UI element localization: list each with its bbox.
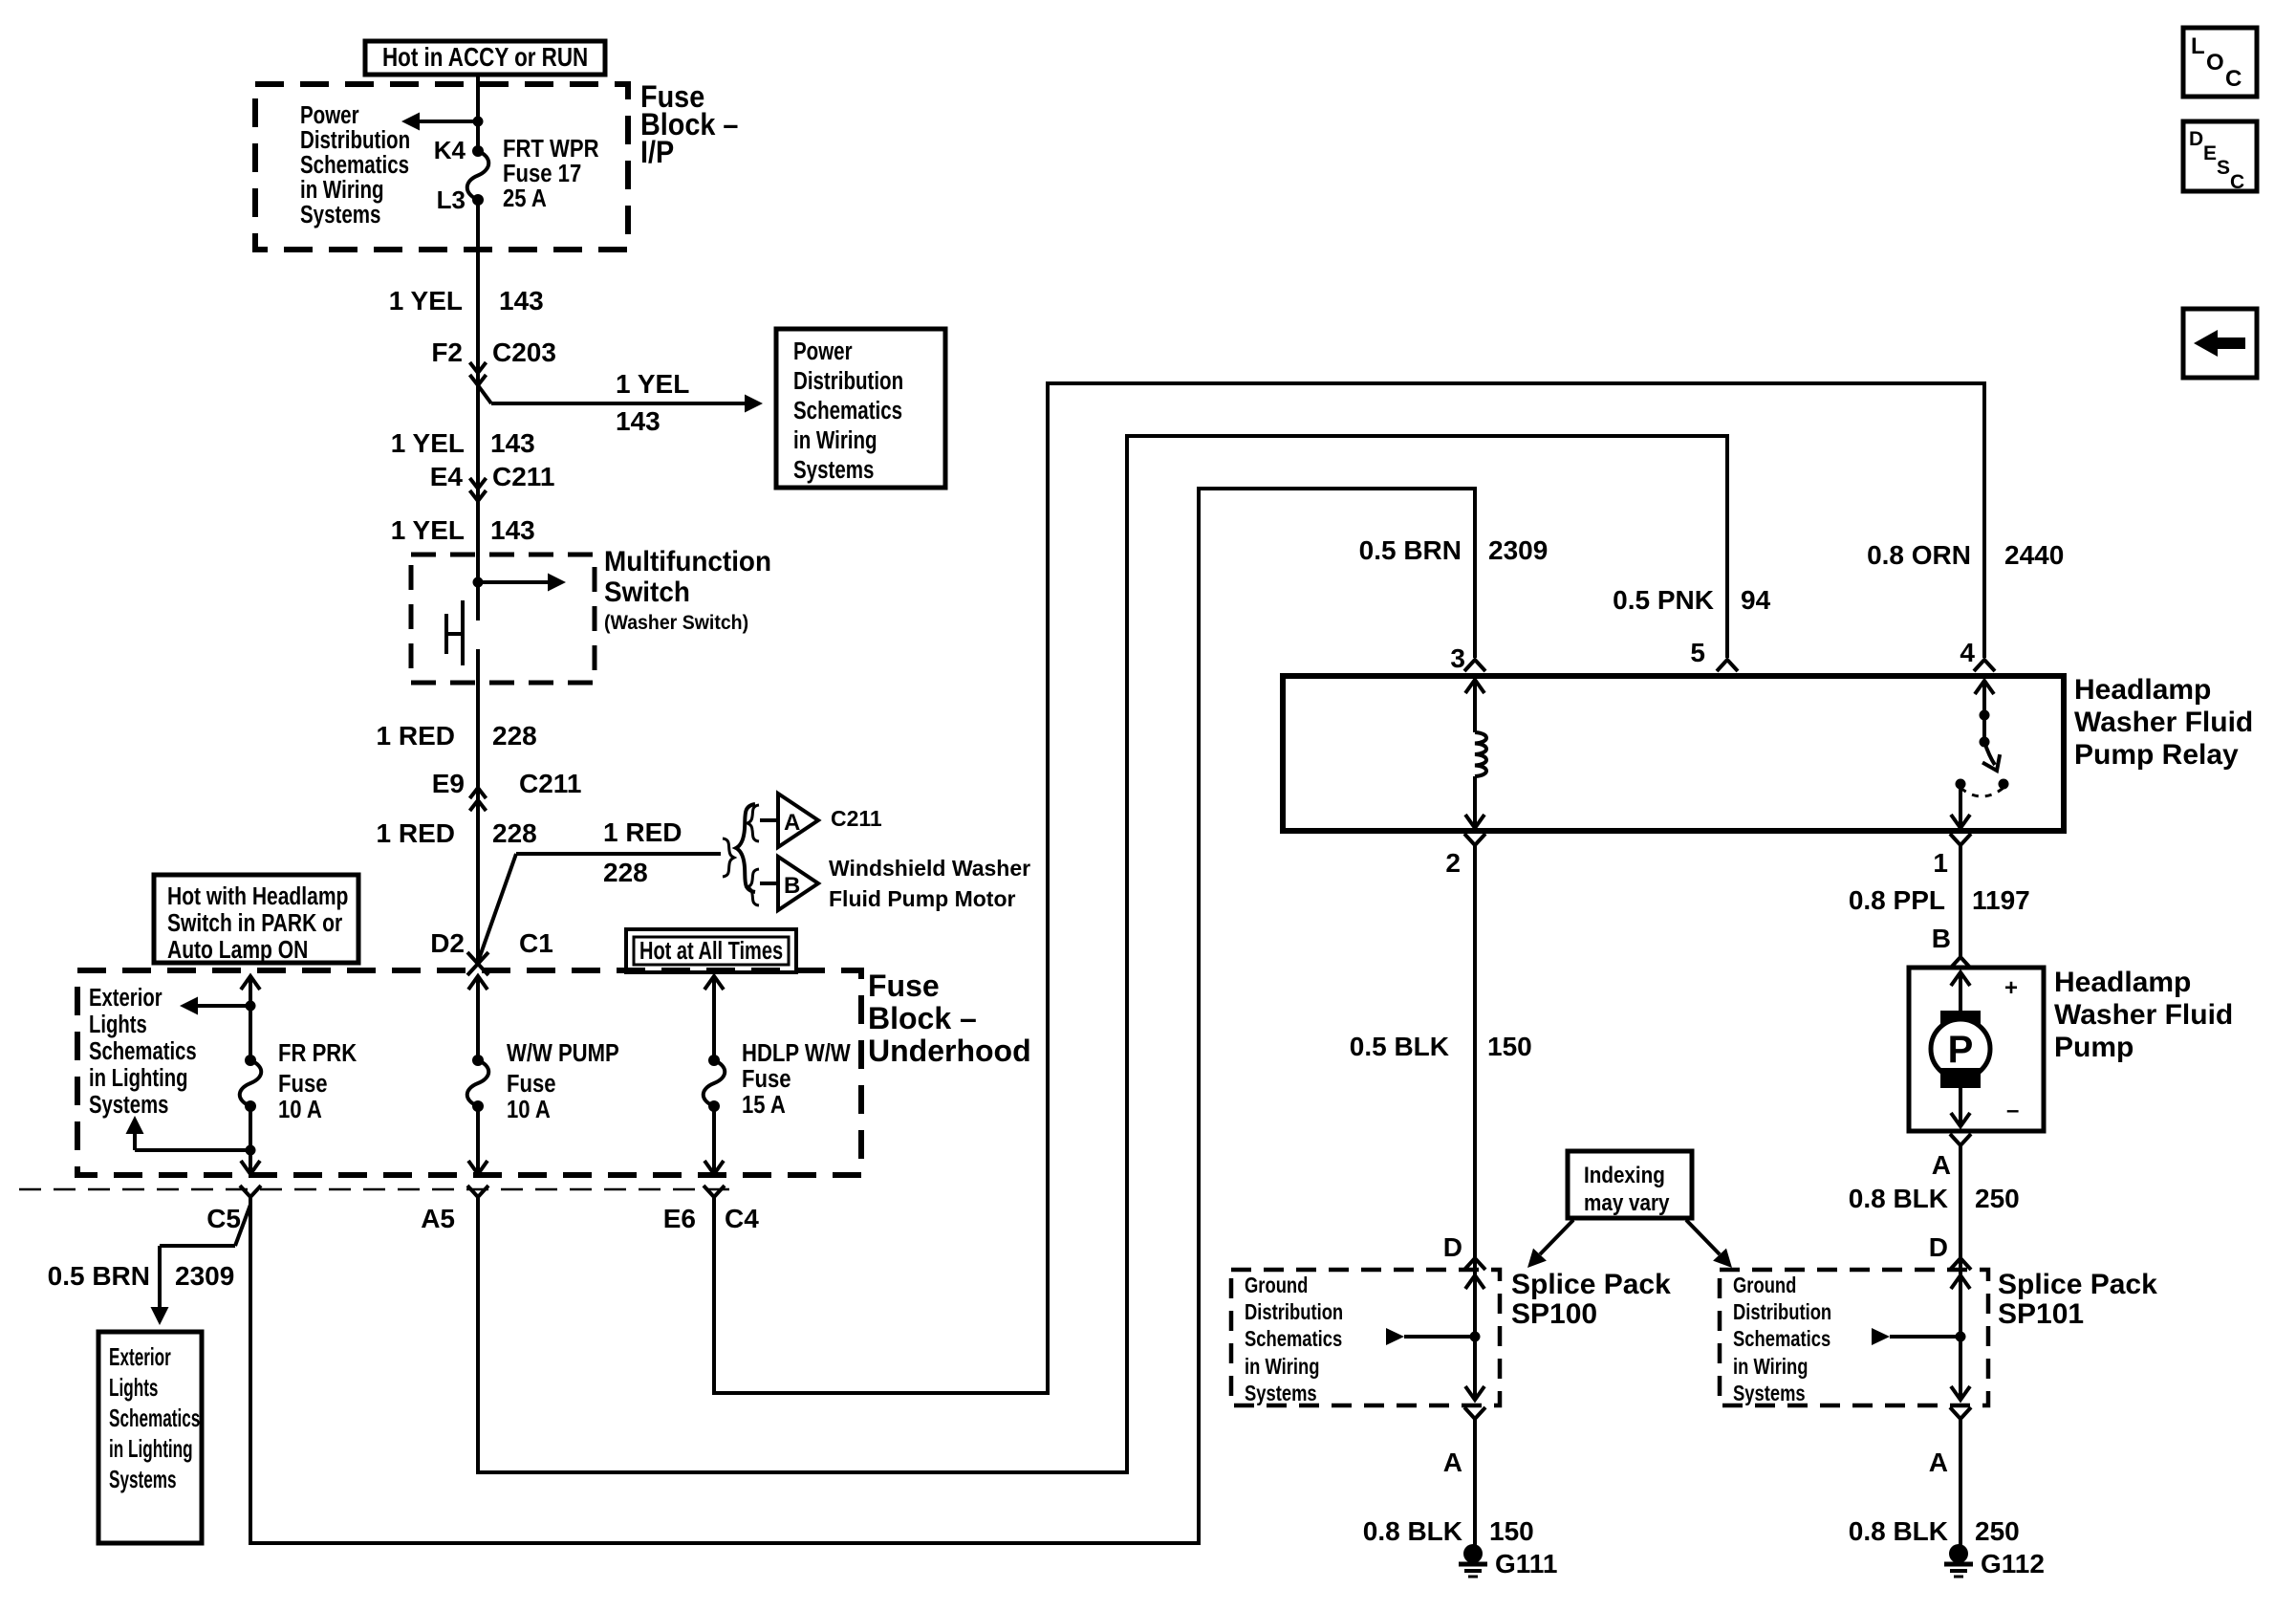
fuse F17 FRT WPR 25A xyxy=(467,145,489,206)
node: Headlamp Washer Fluid Pump label xyxy=(2054,967,2233,1063)
pin 4 xyxy=(1960,638,1995,671)
svg-text:S: S xyxy=(2217,157,2230,179)
svg-text:Systems: Systems xyxy=(793,456,874,484)
motor M pump symbol xyxy=(1931,972,1990,1126)
svg-text:0.5 BRN: 0.5 BRN xyxy=(48,1261,150,1291)
svg-text:Exterior: Exterior xyxy=(89,984,162,1012)
wire label: 0.8 PPL 1197 xyxy=(1849,885,2030,915)
pin A (pump) xyxy=(1932,1134,1971,1180)
svg-text:Fuse 17: Fuse 17 xyxy=(503,160,581,187)
svg-text:HDLP W/W: HDLP W/W xyxy=(742,1039,851,1067)
svg-text:Distribution: Distribution xyxy=(300,126,410,154)
svg-text:5: 5 xyxy=(1690,638,1705,667)
wire: W/W PUMP feed xyxy=(468,976,487,1060)
value label: W/W PUMP Fuse 10 A xyxy=(507,1039,619,1123)
fuse block I/P dashed box xyxy=(255,84,628,250)
wire label: 0.8 BLK 150 xyxy=(1363,1516,1534,1546)
svg-text:E6: E6 xyxy=(663,1204,696,1233)
wire: switch feed arrow xyxy=(473,574,567,592)
value label: HDLP W/W Fuse 15 A xyxy=(742,1039,851,1119)
svg-text:Multifunction: Multifunction xyxy=(604,546,771,577)
wire: branch to power distribution (left arrow) xyxy=(401,113,484,131)
svg-text:SP101: SP101 xyxy=(1998,1298,2084,1330)
svg-text:FR PRK: FR PRK xyxy=(278,1039,357,1067)
node: Ground Distribution Schematics reference (SP101) xyxy=(1733,1274,1831,1405)
fuse FR PRK 10A xyxy=(240,1055,262,1112)
svg-text:W/W PUMP: W/W PUMP xyxy=(507,1039,619,1067)
svg-text:C1: C1 xyxy=(519,928,553,958)
terminal A triangle xyxy=(778,794,818,847)
pin 2 xyxy=(1445,834,1485,878)
node: Exterior Lights Schematics reference (in underhood box) xyxy=(89,984,197,1119)
connector A (below SP100) xyxy=(1443,1407,1485,1477)
svg-text:2440: 2440 xyxy=(2004,540,2064,570)
svg-text:2309: 2309 xyxy=(175,1261,234,1291)
node: Splice Pack SP100 label xyxy=(1511,1269,1671,1330)
svg-text:E4: E4 xyxy=(430,462,464,491)
wire: switch output down to E9 xyxy=(476,683,480,815)
svg-text:Splice Pack: Splice Pack xyxy=(1998,1269,2157,1300)
svg-text:C: C xyxy=(2225,66,2242,92)
connector C211 (E4) xyxy=(470,462,555,501)
wire: stub to terminal A xyxy=(760,818,778,822)
svg-text:0.5 BRN: 0.5 BRN xyxy=(1359,535,1462,565)
svg-text:1 YEL: 1 YEL xyxy=(391,428,465,458)
svg-text:FRT WPR: FRT WPR xyxy=(503,135,599,163)
svg-text:Fuse: Fuse xyxy=(868,969,940,1003)
svg-text:2309: 2309 xyxy=(1488,535,1548,565)
svg-text:25 A: 25 A xyxy=(503,185,547,212)
splice pack SP100 dashed box xyxy=(1231,1270,1500,1405)
svg-text:C: C xyxy=(2230,171,2244,193)
svg-text:D: D xyxy=(1443,1232,1462,1262)
svg-text:10 A: 10 A xyxy=(278,1096,322,1123)
connector D (SP100) xyxy=(1443,1232,1485,1270)
brace: splice brace small right xyxy=(723,838,734,877)
svg-text:G112: G112 xyxy=(1981,1549,2045,1578)
node: Hot at All Times box xyxy=(626,929,796,972)
svg-text:Distribution: Distribution xyxy=(1245,1300,1343,1324)
pin B (pump) xyxy=(1932,924,1971,969)
svg-text:Schematics: Schematics xyxy=(300,151,409,179)
fuse HDLP W/W 15A xyxy=(704,1055,726,1112)
wire: FR PRK feed with junction and left arrow xyxy=(180,976,260,1060)
svg-text:Hot with Headlamp: Hot with Headlamp xyxy=(167,883,348,911)
fuse block Underhood dashed box xyxy=(77,970,861,1175)
connector C1 (D2) xyxy=(467,928,553,975)
wire: HDLP W/W feed xyxy=(704,976,724,1060)
svg-text:Washer Fluid: Washer Fluid xyxy=(2074,707,2253,738)
wire label: 0.5 BRN 2309 (bottom left) xyxy=(48,1261,235,1291)
wire: pin 2 to SP100 (0.5 BLK 150) xyxy=(1473,845,1477,1252)
node: connector row dashed line xyxy=(19,1188,738,1191)
svg-text:Schematics: Schematics xyxy=(109,1404,200,1432)
wire: HDLP W/W output xyxy=(704,1106,724,1174)
svg-text:0.5 BLK: 0.5 BLK xyxy=(1350,1032,1449,1061)
wire label: 0.8 BLK 250 xyxy=(1849,1516,2020,1546)
svg-text:Systems: Systems xyxy=(300,201,380,229)
terminal B triangle xyxy=(778,857,818,910)
svg-text:1 YEL: 1 YEL xyxy=(389,286,463,316)
svg-text:Headlamp: Headlamp xyxy=(2074,674,2211,706)
svg-text:Power: Power xyxy=(300,101,359,129)
svg-text:may vary: may vary xyxy=(1584,1190,1670,1216)
wire: C5 route to relay pin 3 (0.5 BRN 2309) xyxy=(250,489,1475,1543)
wire: pin 1 to pump (0.8 PPL 1197) xyxy=(1959,845,1962,956)
svg-text:Fuse: Fuse xyxy=(742,1065,791,1093)
svg-text:Washer Fluid: Washer Fluid xyxy=(2054,999,2233,1031)
wire label: 0.5 BLK 150 xyxy=(1350,1032,1532,1061)
svg-text:Pump: Pump xyxy=(2054,1032,2134,1063)
svg-text:L: L xyxy=(2191,33,2205,59)
icon: DESC xyxy=(2183,121,2257,193)
svg-text:Auto Lamp ON: Auto Lamp ON xyxy=(167,937,308,965)
node: Multifunction Switch label xyxy=(604,546,771,634)
pump box: Headlamp Washer Fluid Pump xyxy=(1909,968,2044,1131)
svg-text:C211: C211 xyxy=(831,806,882,831)
pin 5 xyxy=(1690,638,1738,671)
node: Ground Distribution Schematics reference (SP100) xyxy=(1245,1274,1343,1405)
svg-text:E: E xyxy=(2203,142,2217,164)
svg-text:Systems: Systems xyxy=(89,1091,168,1119)
value label: FRT WPR Fuse 17 25 A xyxy=(503,135,599,212)
brace: big left brace xyxy=(736,804,755,892)
relay coil K1 xyxy=(1465,680,1486,828)
svg-text:D2: D2 xyxy=(430,928,465,958)
brace: small brace A xyxy=(747,805,759,841)
svg-text:A: A xyxy=(784,810,800,836)
svg-text:Headlamp: Headlamp xyxy=(2054,967,2191,998)
node: Fuse Block Underhood label xyxy=(868,969,1031,1068)
svg-text:in Wiring: in Wiring xyxy=(300,176,384,204)
wire label: 1 YEL 143 (branch) xyxy=(616,369,689,436)
svg-text:Hot in ACCY or RUN: Hot in ACCY or RUN xyxy=(382,43,588,73)
relay box: Headlamp Washer Fluid Pump Relay xyxy=(1283,676,2064,831)
wire label: 0.8 ORN 2440 (pin 4) xyxy=(1867,540,2064,570)
svg-text:Systems: Systems xyxy=(1245,1382,1317,1405)
connector C211 (E9) xyxy=(470,769,582,811)
svg-text:0.8 BLK: 0.8 BLK xyxy=(1363,1516,1462,1546)
node: Headlamp Washer Fluid Pump Relay label xyxy=(2074,674,2253,771)
wire: FR PRK output with branch arrow up xyxy=(126,1106,261,1174)
svg-text:A: A xyxy=(1443,1448,1462,1477)
svg-text:228: 228 xyxy=(492,818,537,848)
svg-text:250: 250 xyxy=(1975,1184,2020,1213)
svg-text:C5: C5 xyxy=(206,1204,241,1233)
svg-text:B: B xyxy=(784,873,800,899)
wire: SP100 to ground G111 (0.8 BLK 150) xyxy=(1473,1419,1477,1547)
svg-text:15 A: 15 A xyxy=(742,1091,786,1119)
wire: pump to SP101 (0.8 BLK 250) xyxy=(1959,1145,1962,1274)
svg-text:I/P: I/P xyxy=(640,136,674,170)
node: Hot with Headlamp Switch in PARK or Auto Lamp ON box xyxy=(154,875,358,965)
node: Windshield Washer Fluid Pump Motor label xyxy=(829,856,1030,911)
svg-text:Ground: Ground xyxy=(1245,1274,1308,1297)
node: Power Distribution Schematics reference box xyxy=(776,329,945,488)
node: Exterior Lights Schematics in Lighting Systems box xyxy=(98,1332,202,1543)
wire: SP100 internal with arrows and junction xyxy=(1386,1252,1484,1400)
svg-text:Indexing: Indexing xyxy=(1584,1163,1665,1188)
svg-text:Systems: Systems xyxy=(109,1465,177,1493)
svg-text:0.8 ORN: 0.8 ORN xyxy=(1867,540,1971,570)
svg-text:in Wiring: in Wiring xyxy=(793,426,877,454)
multifunction switch dashed box xyxy=(411,555,595,683)
node: Fuse Block I/P label xyxy=(640,80,738,170)
wire: indexing arrow to SP100 xyxy=(1521,1220,1573,1274)
wire: branch to windshield washer fluid pump motor xyxy=(478,854,721,962)
svg-text:–: – xyxy=(2006,1098,2019,1123)
svg-text:A5: A5 xyxy=(421,1204,455,1233)
svg-text:C211: C211 xyxy=(519,769,581,798)
svg-text:in Lighting: in Lighting xyxy=(89,1064,188,1092)
svg-text:143: 143 xyxy=(490,428,535,458)
svg-text:Distribution: Distribution xyxy=(793,367,903,395)
svg-text:A: A xyxy=(1932,1150,1951,1180)
icon: back arrow xyxy=(2183,309,2257,378)
svg-text:Block –: Block – xyxy=(868,1001,977,1035)
value label: FR PRK Fuse 10 A xyxy=(278,1039,357,1123)
svg-text:0.5 PNK: 0.5 PNK xyxy=(1613,585,1714,615)
svg-text:Switch: Switch xyxy=(604,577,690,608)
svg-text:Underhood: Underhood xyxy=(868,1034,1031,1068)
svg-text:94: 94 xyxy=(1741,585,1771,615)
svg-text:1 YEL: 1 YEL xyxy=(391,515,465,545)
svg-text:Schematics: Schematics xyxy=(1733,1327,1830,1351)
connector E6 / C4 xyxy=(663,1186,759,1233)
wire: stub to terminal B xyxy=(760,882,778,885)
svg-text:in Wiring: in Wiring xyxy=(1245,1355,1319,1379)
svg-text:1197: 1197 xyxy=(1972,885,2030,915)
svg-text:C203: C203 xyxy=(492,337,556,367)
svg-text:Ground: Ground xyxy=(1733,1274,1796,1297)
svg-text:0.8 BLK: 0.8 BLK xyxy=(1849,1516,1948,1546)
svg-text:Power: Power xyxy=(793,337,853,365)
svg-text:Switch in PARK or: Switch in PARK or xyxy=(167,910,342,938)
wire label: 1 YEL 143 xyxy=(389,286,544,316)
node: Splice Pack SP101 label xyxy=(1998,1269,2157,1330)
svg-text:C211: C211 xyxy=(492,462,554,491)
connector A5 xyxy=(421,1186,488,1233)
svg-text:0.8 BLK: 0.8 BLK xyxy=(1849,1184,1948,1213)
switch S1 washer switch contact xyxy=(446,600,478,686)
connector C5 xyxy=(206,1186,261,1233)
svg-text:in Wiring: in Wiring xyxy=(1733,1355,1808,1379)
icon: LOC xyxy=(2183,28,2257,97)
brace: small brace B xyxy=(747,869,759,905)
wire label: 0.5 PNK 94 (pin 5) xyxy=(1613,585,1770,615)
svg-text:G111: G111 xyxy=(1495,1549,1557,1578)
svg-text:150: 150 xyxy=(1489,1516,1534,1546)
svg-text:0.8 PPL: 0.8 PPL xyxy=(1849,885,1945,915)
svg-text:F2: F2 xyxy=(431,337,463,367)
pin 1 xyxy=(1933,834,1971,878)
wire: SP101 internal with arrows and junction xyxy=(1872,1252,1970,1400)
wire: branch tap to power distribution schematics xyxy=(478,385,763,413)
wire label: 1 RED 228 xyxy=(377,721,537,751)
svg-text:SP100: SP100 xyxy=(1511,1298,1597,1330)
svg-text:143: 143 xyxy=(616,406,661,436)
svg-text:D: D xyxy=(2189,128,2203,150)
connector D (SP101) xyxy=(1929,1232,1971,1270)
node: Power Distribution Schematics reference (I/P) xyxy=(300,101,410,229)
svg-text:C4: C4 xyxy=(725,1204,759,1233)
wire label: 1 RED 228 (branch) xyxy=(603,817,682,887)
svg-text:Fuse: Fuse xyxy=(507,1070,556,1098)
svg-text:143: 143 xyxy=(490,515,535,545)
svg-text:Fuse: Fuse xyxy=(278,1070,328,1098)
svg-text:B: B xyxy=(1932,924,1951,953)
wire label: 0.5 BRN 2309 (pin 3) xyxy=(1359,535,1549,565)
svg-text:K4: K4 xyxy=(434,136,466,164)
svg-text:4: 4 xyxy=(1960,638,1975,667)
svg-text:1 RED: 1 RED xyxy=(603,817,682,847)
svg-text:228: 228 xyxy=(603,858,648,887)
wire: indexing arrow to SP101 xyxy=(1686,1220,1739,1274)
svg-text:E9: E9 xyxy=(432,769,465,798)
node: Hot in ACCY or RUN power feed box xyxy=(365,41,605,75)
svg-text:Lights: Lights xyxy=(109,1373,158,1402)
svg-text:in Lighting: in Lighting xyxy=(109,1434,193,1463)
wire label: 1 YEL 143 xyxy=(391,515,535,545)
fuse W/W PUMP 10A xyxy=(467,1055,489,1112)
svg-text:1: 1 xyxy=(1933,848,1948,878)
svg-text:L3: L3 xyxy=(437,185,466,214)
svg-text:150: 150 xyxy=(1487,1032,1532,1061)
svg-text:1 RED: 1 RED xyxy=(377,721,455,751)
wire: C5 branch to exterior lights reference xyxy=(151,1205,251,1325)
pin 3 xyxy=(1450,643,1485,673)
svg-text:Systems: Systems xyxy=(1733,1382,1806,1405)
svg-text:228: 228 xyxy=(492,721,537,751)
connector A (below SP101) xyxy=(1929,1407,1971,1477)
svg-text:250: 250 xyxy=(1975,1516,2020,1546)
wire: feed into Fuse Block I/P xyxy=(476,75,480,151)
wire: E6/C4 route to relay pin 4 (0.8 ORN 2440) xyxy=(714,383,1984,1393)
wire label: 1 RED 228 xyxy=(377,818,537,848)
ground G112 xyxy=(1944,1544,2045,1578)
svg-text:Schematics: Schematics xyxy=(1245,1327,1342,1351)
svg-text:A: A xyxy=(1929,1448,1948,1477)
wire label: 0.8 BLK 250 xyxy=(1849,1184,2020,1213)
svg-text:+: + xyxy=(2004,975,2018,1001)
wire label: 1 YEL 143 xyxy=(391,428,535,458)
relay switch contacts xyxy=(1951,681,2009,828)
svg-text:D: D xyxy=(1929,1232,1948,1262)
svg-text:3: 3 xyxy=(1450,643,1465,673)
wire: E9 down to D2/C1 xyxy=(476,815,480,961)
svg-text:Windshield Washer: Windshield Washer xyxy=(829,856,1030,881)
connector C203 xyxy=(470,337,556,385)
svg-text:Lights: Lights xyxy=(89,1011,147,1038)
svg-text:2: 2 xyxy=(1445,848,1461,878)
svg-text:Hot at All Times: Hot at All Times xyxy=(639,936,783,964)
wire: A5 route to relay pin 5 (0.5 PNK 94) xyxy=(478,436,1727,1472)
svg-text:Splice Pack: Splice Pack xyxy=(1511,1269,1671,1300)
svg-text:(Washer Switch): (Washer Switch) xyxy=(604,612,748,634)
splice pack SP101 dashed box xyxy=(1720,1270,1988,1405)
svg-text:143: 143 xyxy=(499,286,544,316)
svg-text:Schematics: Schematics xyxy=(793,397,902,425)
svg-text:1 YEL: 1 YEL xyxy=(616,369,689,399)
wire: W/W PUMP output xyxy=(468,1106,487,1174)
svg-text:Distribution: Distribution xyxy=(1733,1300,1831,1324)
svg-text:Pump Relay: Pump Relay xyxy=(2074,739,2239,771)
svg-text:10 A: 10 A xyxy=(507,1096,551,1123)
svg-text:Exterior: Exterior xyxy=(109,1342,171,1371)
wire: fuse output down to C203 xyxy=(476,200,480,620)
wire: SP101 to ground G112 (0.8 BLK 250) xyxy=(1959,1419,1962,1547)
svg-text:Schematics: Schematics xyxy=(89,1037,197,1065)
ground G111 xyxy=(1459,1544,1557,1578)
svg-text:O: O xyxy=(2206,50,2224,76)
svg-text:Fluid Pump Motor: Fluid Pump Motor xyxy=(829,886,1016,911)
svg-text:P: P xyxy=(1948,1029,1974,1071)
node: Indexing may vary box xyxy=(1568,1151,1692,1218)
polarity labels + and - xyxy=(2004,975,2019,1123)
svg-text:1 RED: 1 RED xyxy=(377,818,455,848)
